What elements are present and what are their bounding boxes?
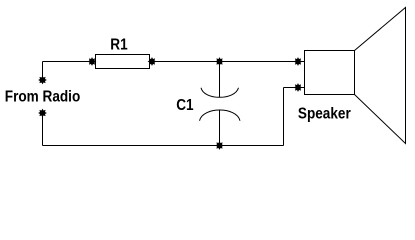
- node capacitor bottom junction: [215, 141, 224, 150]
- svg-text:From Radio: From Radio: [5, 89, 80, 106]
- node speaker lower pin: [294, 83, 303, 92]
- wire speaker return riser: [283, 88, 285, 146]
- wire speaker lower lead: [284, 87, 305, 89]
- node resistor left pin: [88, 57, 97, 66]
- resistor R1 body: [96, 55, 150, 69]
- wire capacitor bottom lead: [219, 110, 221, 146]
- node speaker upper pin: [294, 57, 303, 66]
- svg-text:Speaker: Speaker: [298, 106, 351, 123]
- node upper input terminal: [38, 76, 47, 85]
- wire left lower drop: [42, 113, 44, 146]
- wire top rail left segment: [43, 61, 96, 63]
- speaker body box: [305, 51, 355, 95]
- wire bottom rail: [43, 145, 284, 147]
- svg-text:R1: R1: [110, 36, 127, 53]
- svg-text:C1: C1: [176, 97, 193, 114]
- capacitor C1 top plate: [201, 88, 239, 98]
- wire capacitor top lead: [219, 62, 221, 98]
- capacitor C1 bottom plate: [200, 110, 241, 121]
- wire top rail right segment: [150, 61, 305, 63]
- speaker horn cone: [355, 8, 406, 144]
- node lower input terminal: [38, 109, 47, 118]
- node capacitor top junction: [215, 57, 224, 66]
- node resistor right pin: [148, 57, 157, 66]
- wire left upper drop: [42, 62, 44, 81]
